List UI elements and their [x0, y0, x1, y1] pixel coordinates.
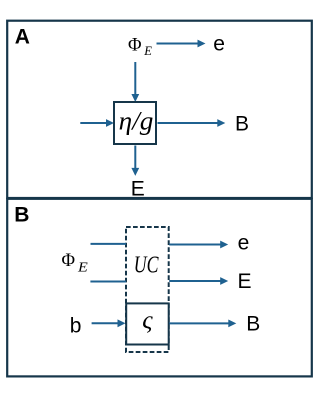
svg-text:UC: UC	[134, 253, 159, 279]
wire sigma to B	[169, 320, 236, 328]
svg-text:e: e	[238, 232, 250, 255]
wire box down to E	[131, 146, 139, 176]
wire PhiE upper into UC	[91, 243, 127, 245]
box eta/g (panel A)	[114, 102, 156, 144]
box sigma (panel B)	[126, 303, 169, 344]
wire PhiE lower into UC	[90, 281, 126, 283]
svg-text:Φ: Φ	[128, 35, 142, 55]
svg-text:η/g: η/g	[119, 107, 154, 136]
wire PhiE down to box	[131, 62, 139, 102]
svg-text:Φ: Φ	[62, 251, 76, 271]
wire UC to e	[169, 241, 228, 249]
wire left input into box	[80, 119, 114, 127]
svg-text:E: E	[131, 177, 145, 200]
wire b into sigma box	[92, 319, 126, 327]
panel B frame	[7, 199, 312, 377]
svg-text:B: B	[246, 312, 260, 335]
svg-text:E: E	[77, 259, 89, 274]
svg-text:b: b	[70, 314, 82, 337]
box UC dashed (panel B)	[126, 227, 169, 352]
node PhiE (panel A)	[128, 35, 152, 58]
wire PhiE to e	[157, 40, 206, 48]
svg-text:E: E	[143, 44, 152, 58]
panel A frame	[7, 21, 312, 198]
svg-text:B: B	[14, 204, 29, 227]
node PhiE (panel B)	[62, 251, 89, 274]
wire box to B	[158, 119, 226, 127]
svg-text:e: e	[213, 33, 225, 56]
svg-text:B: B	[235, 112, 249, 135]
wire UC to E	[169, 277, 228, 285]
svg-text:A: A	[15, 26, 30, 49]
svg-text:E: E	[238, 270, 252, 293]
svg-text:ς: ς	[142, 305, 153, 334]
